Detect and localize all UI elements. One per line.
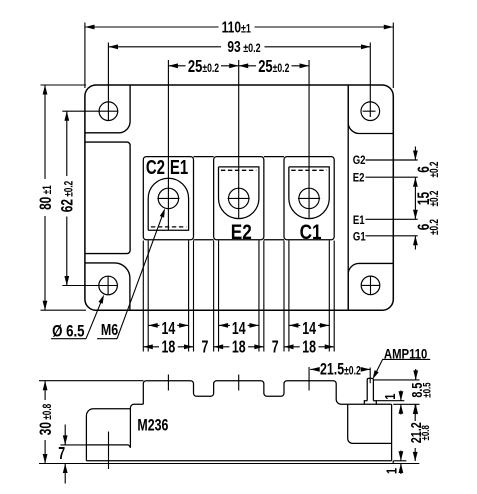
- svg-text:7: 7: [272, 338, 279, 358]
- extension top edge left: [41, 84, 87, 86]
- extension lines block2 bottom: [214, 241, 264, 352]
- svg-text:±0.8: ±0.8: [420, 425, 433, 441]
- underline AMP110: [382, 358, 430, 360]
- ext bump top left: [39, 380, 144, 382]
- side flange and left edge: [86, 409, 130, 461]
- svg-text:1: 1: [383, 468, 400, 474]
- side tick pin (21.5 ext right): [369, 368, 371, 384]
- svg-text:G1: G1: [353, 230, 366, 243]
- dim line 25 a: [169, 65, 239, 67]
- svg-text:±0.5: ±0.5: [421, 382, 434, 398]
- leader AMP110: [374, 359, 382, 375]
- side right edge: [391, 404, 393, 461]
- arrowhead AMP110 leader: [373, 370, 379, 379]
- svg-text:±0.2: ±0.2: [429, 161, 442, 177]
- ext case bottom right: [393, 460, 406, 462]
- dim 8.5 shafts: [415, 369, 417, 415]
- svg-text:14: 14: [232, 319, 246, 339]
- side terminal bumps profile: [143, 381, 391, 405]
- side AMP pin: [367, 378, 373, 400]
- ext baseplate bottom: [39, 463, 419, 465]
- terminal screw circle C2E1: [158, 188, 178, 208]
- svg-text:E1: E1: [353, 214, 365, 227]
- side baseplate right edge: [392, 461, 394, 464]
- right dim segs 6/15/6: [414, 147, 416, 250]
- svg-text:C2: C2: [146, 156, 165, 179]
- dim lines 18: [143, 346, 334, 348]
- module outline: [85, 85, 393, 310]
- svg-text:E1: E1: [170, 156, 188, 179]
- svg-text:±0.2: ±0.2: [429, 219, 442, 235]
- ear notch bottom-left: [85, 263, 129, 310]
- extension lines block1 bottom: [143, 241, 193, 352]
- dim 21.5 shafts: [310, 368, 370, 370]
- arrowheads 18 x3: [143, 344, 193, 349]
- side case bottom: [86, 460, 391, 462]
- dim line 25 b: [239, 65, 309, 67]
- pin leader G1: [366, 235, 418, 237]
- dim 21.2 shafts: [414, 404, 416, 461]
- side case left and top corner: [130, 404, 143, 447]
- extension line left edge top: [84, 23, 86, 89]
- arrowheads 7 side: [63, 435, 68, 473]
- hole BR centerlines: [361, 276, 380, 295]
- svg-text:110±1: 110±1: [222, 18, 251, 36]
- mounting hole bottom-left: [99, 276, 118, 295]
- svg-text:14: 14: [302, 319, 316, 339]
- svg-text:80 ±1: 80 ±1: [37, 185, 55, 210]
- svg-text:E2: E2: [231, 220, 252, 244]
- svg-text:30 ±0.8: 30 ±0.8: [37, 403, 55, 435]
- svg-text:M236: M236: [137, 417, 168, 435]
- arrowheads 14 x3: [148, 323, 188, 328]
- svg-text:1: 1: [381, 394, 398, 400]
- terminal screw circle C1: [299, 188, 319, 208]
- nut slot dashed C2E1: [151, 226, 186, 228]
- ear notch top-left: [85, 86, 130, 133]
- terminal block E2 outer: [214, 157, 264, 240]
- arrowheads 62: [64, 111, 69, 285]
- svg-text:7: 7: [201, 338, 208, 358]
- ext flange bottom left: [61, 444, 88, 446]
- arrowheads 1 pin base: [399, 391, 404, 414]
- ear notch top-right: [348, 86, 393, 134]
- underline Ø6.5: [51, 338, 86, 340]
- arrowheads 80: [43, 85, 48, 310]
- center extension line E2: [238, 60, 240, 219]
- side tick terminal2 center: [238, 375, 240, 391]
- svg-text:14: 14: [162, 319, 176, 339]
- extension line right edge top: [392, 23, 394, 89]
- svg-text:18: 18: [162, 337, 176, 357]
- dim 7 shafts: [64, 425, 66, 484]
- arrowhead M6: [160, 208, 165, 217]
- arrowheads 110: [85, 25, 393, 30]
- dim 1 pin base shafts: [400, 391, 402, 415]
- svg-text:C1: C1: [300, 220, 322, 244]
- svg-text:Ø 6.5: Ø 6.5: [52, 322, 85, 341]
- svg-text:7: 7: [58, 444, 65, 464]
- hole TR centerlines: [363, 43, 376, 118]
- nut slot dashed C1: [291, 169, 326, 171]
- arrowheads 21.2: [413, 404, 418, 461]
- leader M6: [117, 211, 164, 338]
- hole BL centerlines: [62, 276, 117, 295]
- side flange groove: [86, 445, 130, 448]
- svg-text:18: 18: [232, 337, 246, 357]
- dim line 30: [44, 381, 46, 464]
- svg-text:E2: E2: [353, 172, 365, 185]
- terminal screw circle E2: [229, 188, 249, 208]
- side AMP pin base: [364, 401, 376, 405]
- svg-text:93 ±0.2: 93 ±0.2: [227, 37, 260, 55]
- arrowheads 93: [109, 44, 371, 49]
- side tick hole center: [108, 432, 110, 470]
- side tick terminal1 center: [167, 375, 169, 391]
- underline M6: [97, 338, 117, 340]
- center extension line C2E1: [167, 60, 169, 230]
- arrowheads right 6/15/6: [413, 151, 418, 246]
- svg-text:G2: G2: [353, 154, 366, 167]
- dim line 110: [85, 26, 393, 28]
- pin leader G2: [366, 159, 418, 161]
- side connector bay wall: [348, 405, 392, 444]
- arrowheads 25 b: [239, 63, 309, 68]
- dim line 62: [66, 111, 68, 285]
- svg-text:M6: M6: [101, 321, 118, 339]
- ear notch bottom-right: [348, 263, 393, 309]
- svg-text:18: 18: [302, 337, 316, 357]
- side tick terminal3 center (21.5 ext): [308, 367, 310, 391]
- pin leader E2: [366, 176, 418, 178]
- hole TL centerlines (62/93 extension): [62, 43, 118, 121]
- terminal E2 pocket: [219, 167, 259, 219]
- svg-text:21.5±0.2: 21.5±0.2: [320, 361, 361, 379]
- leader Ø6.5: [86, 297, 103, 339]
- dim 1 baseplate shafts: [400, 451, 402, 475]
- terminal cross ticks: [157, 197, 320, 199]
- extension lines block3 bottom: [284, 241, 334, 352]
- terminal C2E1 arch: [148, 178, 188, 230]
- right inner wall: [347, 86, 349, 310]
- arrowhead Ø6.5: [98, 295, 104, 304]
- dim line 80: [44, 85, 46, 310]
- dim line 93: [109, 46, 371, 48]
- left body contour: [85, 142, 130, 254]
- mounting hole top-left: [99, 102, 118, 121]
- terminal C1 pocket: [289, 167, 329, 219]
- terminal block C2E1 outer: [143, 157, 193, 240]
- arrowheads 30: [43, 381, 48, 464]
- ext pin base top: [376, 400, 404, 402]
- dim lines 14: [148, 324, 329, 326]
- mounting hole bottom-right: [361, 276, 380, 295]
- ext case top right: [393, 403, 419, 405]
- arrowheads 1 baseplate: [399, 451, 404, 473]
- center extension line C1: [308, 60, 310, 219]
- arrowheads 25 a: [168, 63, 238, 68]
- mounting hole top-right: [361, 102, 380, 121]
- extension bottom edge left: [41, 309, 87, 311]
- ext pin top right: [374, 379, 420, 381]
- arrowheads 8.5: [413, 370, 418, 413]
- arrowheads 21.5: [310, 367, 370, 372]
- svg-text:25±0.2: 25±0.2: [188, 57, 219, 77]
- nut slot dashed E2: [221, 169, 256, 171]
- svg-text:±0.2: ±0.2: [429, 190, 442, 206]
- svg-text:25±0.2: 25±0.2: [258, 57, 289, 77]
- platform bridge lines: [194, 157, 285, 240]
- terminal block C1 outer: [284, 157, 334, 240]
- pin leader E1: [366, 218, 418, 220]
- svg-text:62 ±0.2: 62 ±0.2: [59, 180, 77, 212]
